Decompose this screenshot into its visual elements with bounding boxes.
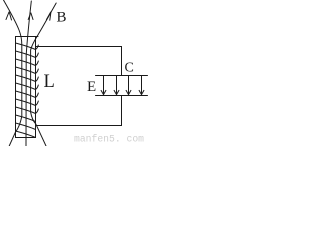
svg-text:L: L [44,72,55,92]
svg-text:E: E [87,79,96,95]
svg-text:manfen5. com: manfen5. com [74,134,144,146]
svg-text:B: B [57,10,67,26]
capacitor C bottom plate [96,95,148,97]
E field arrow 4 [139,76,144,95]
wire right lower (from capacitor bottom plate) [121,96,123,126]
E field arrow 2 [114,76,119,95]
field line center [26,1,33,146]
inductor L windings [16,43,39,138]
E field arrow 1 [101,76,106,95]
wire top [36,46,122,48]
wire bottom [36,125,122,127]
field line right [31,3,57,146]
svg-text:C: C [125,61,134,76]
wire right upper (to capacitor top plate) [121,47,123,76]
field line left (B flux, top flare into coil, bottom flare out) [4,0,22,146]
inductor L coil body [16,37,39,138]
capacitor C top plate [96,75,148,77]
E field arrow 3 [126,76,131,95]
